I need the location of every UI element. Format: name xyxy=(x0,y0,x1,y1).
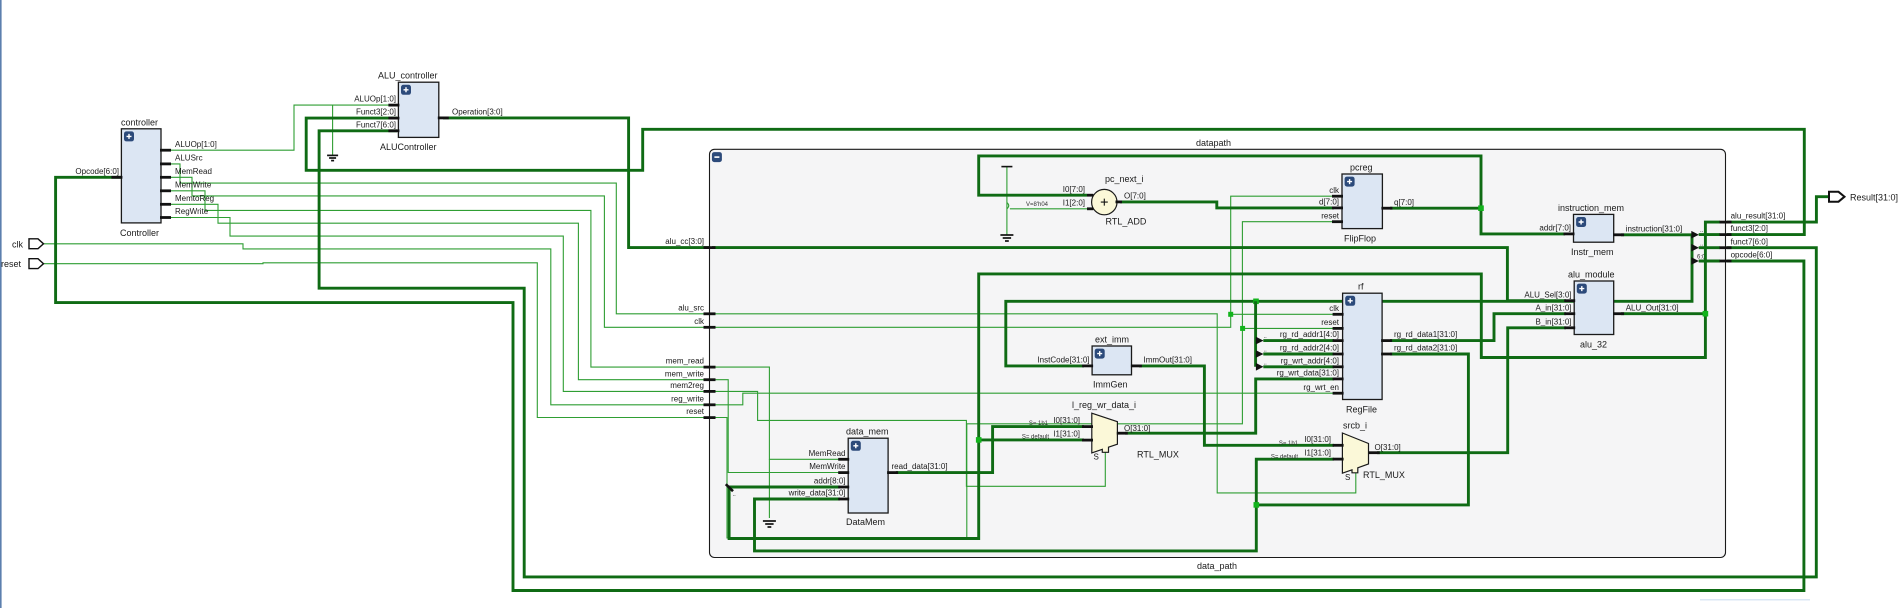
svg-text:pc_next_i: pc_next_i xyxy=(1105,174,1144,184)
bus l_reg mux O to rf rg_wrt_data xyxy=(1125,379,1334,433)
datapath pin reg_write xyxy=(704,403,716,406)
module alu_module (alu_32) xyxy=(1524,269,1678,349)
bus srcb O to alu B_in xyxy=(1377,328,1566,453)
svg-text:Opcode[6:0]: Opcode[6:0] xyxy=(75,167,119,176)
svg-text:Funct7[6:0]: Funct7[6:0] xyxy=(356,120,396,129)
svg-text:rf: rf xyxy=(1358,282,1364,292)
junction alu result to mux xyxy=(976,437,982,443)
pin rg_rd_data1[31:0] xyxy=(1381,339,1392,342)
junction ALU_Out xyxy=(1703,311,1709,317)
svg-text:read_data[31:0]: read_data[31:0] xyxy=(892,462,948,471)
wire MemRead to datapath clk pin row xyxy=(171,177,709,327)
svg-text:Operation[3:0]: Operation[3:0] xyxy=(452,108,503,117)
bus instruction tap vertical xyxy=(1006,235,1692,366)
pin ALUSrc xyxy=(160,162,171,165)
pin instruction[31:0] xyxy=(1613,233,1624,236)
svg-text:I0[31:0]: I0[31:0] xyxy=(1053,416,1080,425)
tap arrow funct7 xyxy=(1691,244,1699,252)
datapath pin opcode[6:0] xyxy=(1720,260,1732,263)
svg-text:S= default: S= default xyxy=(1022,434,1050,440)
wire reset inside to pcreg reset xyxy=(712,222,1334,538)
pin rg_wrt_addr[4:0] xyxy=(1333,365,1344,368)
DataMem expand icon xyxy=(851,441,861,451)
ground below pc constant xyxy=(1000,235,1013,241)
module data_mem (DataMem) xyxy=(788,427,948,527)
pin clk xyxy=(1333,313,1344,316)
pin I1[31:0] xyxy=(1333,458,1344,461)
bus ALU_Out to DataMem addr chain xyxy=(729,274,1705,539)
svg-text:S: S xyxy=(1345,473,1350,482)
svg-text:mem_write: mem_write xyxy=(665,369,705,378)
wire mem_read inside to DataMem MemRead xyxy=(712,367,840,459)
pin MemWrite xyxy=(160,189,171,192)
svg-text:O[31:0]: O[31:0] xyxy=(1124,424,1150,433)
svg-text:I1[31:0]: I1[31:0] xyxy=(1053,430,1080,439)
pin A_in[31:0] xyxy=(1564,312,1575,315)
ground below data_mem xyxy=(763,521,776,527)
tap stub rg_wrt_addr xyxy=(1263,365,1334,368)
svg-text:S= 1b1: S= 1b1 xyxy=(1029,421,1049,427)
ALUController body xyxy=(398,82,438,137)
pin addr[7:0] xyxy=(1564,232,1575,235)
svg-text:reset: reset xyxy=(1321,318,1340,327)
alu_32 body xyxy=(1574,281,1614,335)
bus Operation ALUController to datapath alu_cc xyxy=(443,118,709,248)
junction reset at rf xyxy=(1240,326,1245,331)
svg-text:ALU_Sel[3:0]: ALU_Sel[3:0] xyxy=(1524,290,1571,299)
datapath pin mem2reg xyxy=(704,390,716,393)
svg-text:alu_cc[3:0]: alu_cc[3:0] xyxy=(665,237,704,246)
svg-text:rg_wrt_addr[4:0]: rg_wrt_addr[4:0] xyxy=(1281,356,1339,365)
svg-text:S= 1b1: S= 1b1 xyxy=(1279,441,1299,447)
datapath pin clk xyxy=(704,326,716,329)
svg-text:..: .. xyxy=(1264,360,1268,366)
bus alu_cc inside to alu_32 ALU_Sel xyxy=(712,248,1566,301)
svg-text:instruction_mem: instruction_mem xyxy=(1558,203,1624,213)
wire MemtoReg to datapath mem_write pin row xyxy=(171,204,709,379)
tap stub opcode xyxy=(1699,260,1720,263)
svg-text:ALU_Out[31:0]: ALU_Out[31:0] xyxy=(1626,303,1679,312)
svg-text:rg_wrt_data[31:0]: rg_wrt_data[31:0] xyxy=(1277,369,1339,378)
svg-text:B_in[31:0]: B_in[31:0] xyxy=(1535,317,1571,326)
controller body xyxy=(121,129,161,223)
bus rg_rd_data2 down xyxy=(1256,354,1468,505)
input port clk xyxy=(29,239,44,249)
svg-text:RTL_ADD: RTL_ADD xyxy=(1106,216,1147,226)
bus pcreg q to instr_mem addr xyxy=(979,156,1481,208)
pin write_data[31:0] xyxy=(838,498,849,501)
svg-text:MemRead: MemRead xyxy=(175,167,212,176)
bus ImmOut to srcb I0 xyxy=(1139,366,1334,445)
svg-text:MemWrite: MemWrite xyxy=(175,180,212,189)
pin InstCode[31:0] xyxy=(1082,364,1093,367)
junction rd_data2 xyxy=(1254,502,1260,508)
svg-text:rg_wrt_en: rg_wrt_en xyxy=(1303,383,1339,392)
pin MemRead xyxy=(838,458,849,461)
svg-text:clk: clk xyxy=(694,317,705,326)
pcreg expand icon xyxy=(1345,177,1355,187)
svg-text:instruction[31:0]: instruction[31:0] xyxy=(1626,224,1682,233)
svg-text:clk: clk xyxy=(12,239,23,249)
svg-text:..: .. xyxy=(1700,242,1704,248)
controller expand icon xyxy=(124,131,134,141)
svg-text:ALUOp[1:0]: ALUOp[1:0] xyxy=(354,95,396,104)
svg-text:Controller: Controller xyxy=(120,228,159,238)
svg-text:O[7:0]: O[7:0] xyxy=(1124,192,1146,201)
svg-text:reset: reset xyxy=(686,407,705,416)
wire mem_write inside to DataMem MemWrite xyxy=(712,380,840,473)
input port reset xyxy=(29,259,44,269)
svg-text:RegWrite: RegWrite xyxy=(175,207,209,216)
pin Opcode[6:0] xyxy=(111,176,122,179)
datapath container xyxy=(710,149,1726,557)
tap arrow funct3 xyxy=(1691,231,1699,239)
svg-text:rg_rd_addr1[4:0]: rg_rd_addr1[4:0] xyxy=(1280,330,1339,339)
wire MemWrite to datapath mem_read pin row xyxy=(171,191,709,367)
svg-text:reset: reset xyxy=(1321,211,1340,220)
tap arrow rg_wrt_addr xyxy=(1256,363,1264,371)
mux srcb_i (RTL_MUX) xyxy=(1271,421,1405,483)
wire reset port to datapath xyxy=(44,263,710,418)
svg-text:pcreg: pcreg xyxy=(1350,163,1373,173)
Instr_mem expand icon xyxy=(1576,217,1586,227)
wire clk branch to rf clk xyxy=(1231,313,1334,315)
pin rg_wrt_en xyxy=(1333,392,1344,395)
pin I0[31:0] xyxy=(1082,425,1093,428)
svg-text:InstCode[31:0]: InstCode[31:0] xyxy=(1037,356,1089,365)
datapath pin alu_src xyxy=(704,312,716,315)
bus opcode datapath to controller Opcode xyxy=(56,177,1804,590)
datapath pin funct3[2:0] xyxy=(1720,233,1732,236)
pin I0[31:0] xyxy=(1333,444,1344,447)
datapath pin alu_cc[3:0] xyxy=(704,246,716,249)
pcreg body xyxy=(1342,174,1382,229)
svg-text:ImmOut[31:0]: ImmOut[31:0] xyxy=(1144,356,1192,365)
pin rg_rd_addr2[4:0] xyxy=(1333,353,1344,356)
svg-text:funct7[6:0]: funct7[6:0] xyxy=(1731,237,1768,246)
module ALU_controller (ALUController) xyxy=(354,71,503,153)
svg-text:RTL_MUX: RTL_MUX xyxy=(1363,470,1405,480)
pin I1[31:0] xyxy=(1082,439,1093,442)
wire mem2reg inside to l_reg_wr_data mux S xyxy=(712,391,1105,486)
svg-text:I1[31:0]: I1[31:0] xyxy=(1304,449,1331,458)
junction clk at rf xyxy=(1228,312,1233,317)
svg-text:ALUOp[1:0]: ALUOp[1:0] xyxy=(175,140,217,149)
bus ALU_Out to alu_result pin xyxy=(1621,222,1720,314)
bus rg_rd_data1 to alu A_in xyxy=(1390,314,1566,341)
RegFile body xyxy=(1343,293,1383,399)
pin reset xyxy=(1333,327,1344,330)
pin MemWrite xyxy=(838,471,849,474)
pin addr[8:0] xyxy=(838,486,849,489)
svg-text:ALUSrc: ALUSrc xyxy=(175,154,203,163)
svg-text:V=8'h04: V=8'h04 xyxy=(1026,202,1049,208)
wire ground stem at ALUController xyxy=(332,105,334,155)
pin O[7:0] xyxy=(1116,200,1123,203)
svg-text:rg_rd_data1[31:0]: rg_rd_data1[31:0] xyxy=(1394,330,1457,339)
pin rg_rd_addr1[4:0] xyxy=(1333,339,1344,342)
svg-text:d[7:0]: d[7:0] xyxy=(1319,198,1339,207)
pin Funct3[2:0] xyxy=(388,117,399,120)
svg-text:alu_module: alu_module xyxy=(1568,269,1615,279)
svg-text:FlipFlop: FlipFlop xyxy=(1344,234,1376,244)
wire RegWrite to datapath mem2reg pin row xyxy=(171,218,709,392)
pin rg_rd_data2[31:0] xyxy=(1381,353,1392,356)
svg-text:DataMem: DataMem xyxy=(846,517,885,527)
wire reset branch to rf reset xyxy=(1242,327,1334,329)
alu_32 expand icon xyxy=(1577,284,1587,294)
module instruction_mem (Instr_mem) xyxy=(1539,203,1682,257)
tap arrow opcode xyxy=(1691,257,1699,265)
tap arrow rg_rd_addr1 xyxy=(1256,337,1264,345)
svg-text:clk: clk xyxy=(1329,186,1340,195)
wire mem_read stem to ground xyxy=(768,459,770,518)
svg-text:S: S xyxy=(1094,453,1099,462)
svg-text:alu_result[31:0]: alu_result[31:0] xyxy=(1731,212,1786,221)
svg-text:alu_src: alu_src xyxy=(678,303,704,312)
mux l_reg_wr_data_i (RTL_MUX) xyxy=(1022,400,1179,462)
wire ALUSrc to datapath alu_src xyxy=(171,164,709,314)
bus alu_result to Result port xyxy=(1727,197,1829,222)
net splitter brace at pc constant xyxy=(1007,203,1009,209)
wire reg_write inside to rf rg_wrt_en xyxy=(712,393,1334,405)
svg-text:q[7:0]: q[7:0] xyxy=(1394,198,1414,207)
tap stub rg_rd_addr1 xyxy=(1263,339,1334,342)
pin read_data[31:0] xyxy=(887,471,898,474)
pin MemtoReg xyxy=(160,203,171,206)
pin reset xyxy=(1332,220,1343,223)
pin d[7:0] xyxy=(1332,206,1343,209)
module controller (Controller) xyxy=(75,118,216,239)
svg-text:opcode[6:0]: opcode[6:0] xyxy=(1731,251,1773,260)
svg-text:datapath: datapath xyxy=(1196,138,1231,148)
svg-text:data_mem: data_mem xyxy=(846,427,889,437)
junction instruction xyxy=(1253,299,1259,305)
tap stub funct3 xyxy=(1699,233,1720,236)
pin Funct7[6:0] xyxy=(388,129,399,132)
svg-text:mem2reg: mem2reg xyxy=(670,381,704,390)
RTL_ADD circle xyxy=(1092,189,1117,214)
Instr_mem body xyxy=(1574,214,1614,242)
RTL_MUX trapezoid xyxy=(1092,413,1118,453)
ALUController expand icon xyxy=(401,85,411,95)
svg-text:MemRead: MemRead xyxy=(809,449,846,458)
svg-text:write_data[31:0]: write_data[31:0] xyxy=(788,489,846,498)
datapath pin alu_result[31:0] xyxy=(1720,221,1732,224)
svg-text:srcb_i: srcb_i xyxy=(1343,421,1367,431)
svg-text:S= default: S= default xyxy=(1271,455,1299,461)
svg-text:I0[31:0]: I0[31:0] xyxy=(1304,435,1331,444)
svg-text:ext_imm: ext_imm xyxy=(1095,334,1129,344)
svg-text:mem_read: mem_read xyxy=(666,357,704,366)
wire clk inside to pcreg clk xyxy=(712,196,1334,327)
output port Result[31:0] xyxy=(1829,192,1845,202)
svg-text:..: .. xyxy=(1264,348,1268,354)
bus read_data to l_reg mux I0 xyxy=(896,427,1084,473)
svg-text:alu_32: alu_32 xyxy=(1580,339,1607,349)
pin B_in[31:0] xyxy=(1564,326,1575,329)
svg-text:rg_rd_addr2[4:0]: rg_rd_addr2[4:0] xyxy=(1280,344,1339,353)
module rf (RegFile) xyxy=(1277,282,1457,415)
pin O[31:0] xyxy=(1117,432,1128,435)
ground below ALU_controller xyxy=(327,155,338,160)
svg-text:addr[7:0]: addr[7:0] xyxy=(1539,224,1571,233)
ImmGen expand icon xyxy=(1095,349,1105,359)
wire alu_src inside to srcb mux S xyxy=(712,314,1356,493)
svg-text:addr[8:0]: addr[8:0] xyxy=(814,477,846,486)
datapath pin funct7[6:0] xyxy=(1720,246,1732,249)
bus q branch down to addr xyxy=(1481,208,1565,234)
svg-text:I0[7:0]: I0[7:0] xyxy=(1063,185,1085,194)
svg-text:..: .. xyxy=(733,492,737,498)
op-amp style adder pc_next_i (RTL_ADD) xyxy=(1063,174,1147,226)
svg-text:controller: controller xyxy=(121,118,158,128)
svg-text:O[31:0]: O[31:0] xyxy=(1375,443,1401,452)
bus rd_data2 branch to srcb I1 xyxy=(1256,459,1334,505)
wire ALUOp controller to ALUController xyxy=(171,105,397,150)
svg-text:Funct3[2:0]: Funct3[2:0] xyxy=(356,108,396,117)
svg-text:MemtoReg: MemtoReg xyxy=(175,194,214,203)
svg-text:reset: reset xyxy=(1,259,22,269)
pin I1[2:0] xyxy=(1087,207,1093,210)
tap stub funct7 xyxy=(1699,246,1720,249)
pin O[31:0] xyxy=(1369,451,1380,454)
ImmGen body xyxy=(1092,346,1131,375)
pin ALUOp[1:0] in xyxy=(388,104,399,107)
pin I0[7:0] xyxy=(1087,194,1093,197)
svg-text:data_path: data_path xyxy=(1197,561,1237,571)
svg-text:ImmGen: ImmGen xyxy=(1093,379,1128,389)
svg-text:funct3[2:0]: funct3[2:0] xyxy=(1731,224,1768,233)
constant top bar xyxy=(1001,166,1012,168)
pin rg_wrt_data[31:0] xyxy=(1333,377,1344,380)
pin ImmOut[31:0] xyxy=(1131,364,1142,367)
module ext_imm (ImmGen) xyxy=(1037,334,1192,389)
datapath collapse icon xyxy=(712,152,722,162)
pin ALUOp[1:0] xyxy=(160,149,171,152)
svg-text:..: .. xyxy=(1264,334,1268,340)
svg-text:reg_write: reg_write xyxy=(671,394,704,403)
bus funct7 datapath to ALUController xyxy=(319,131,1816,577)
bus rd_data2 to DataMem write_data xyxy=(755,499,1257,551)
pin q[7:0] xyxy=(1381,207,1392,210)
tap arrow rg_rd_addr2 xyxy=(1256,350,1264,358)
tap stub rg_rd_addr2 xyxy=(1263,353,1334,356)
svg-text:..: .. xyxy=(1700,228,1704,234)
svg-text:Result[31:0]: Result[31:0] xyxy=(1850,192,1898,202)
datapath pin mem_read xyxy=(704,366,716,369)
svg-text:ALUController: ALUController xyxy=(380,142,437,152)
svg-text:A_in[31:0]: A_in[31:0] xyxy=(1535,303,1571,312)
wire constant stem at pc adder xyxy=(1006,167,1008,235)
pin clk xyxy=(1332,195,1343,198)
datapath pin reset xyxy=(704,416,716,419)
pin Operation[3:0] xyxy=(438,117,449,120)
DataMem body xyxy=(848,438,888,513)
bus ALU result branch to l_reg mux I1 xyxy=(979,438,1084,441)
svg-text:l_reg_wr_data_i: l_reg_wr_data_i xyxy=(1072,400,1136,410)
bus instruction branch to rf address taps xyxy=(1254,301,1257,367)
svg-text:Instr_mem: Instr_mem xyxy=(1571,247,1614,257)
pin ALU_Out[31:0] xyxy=(1613,312,1624,315)
srcb RTL_MUX trapezoid xyxy=(1342,433,1368,473)
pin ALU_Sel[3:0] xyxy=(1564,299,1575,302)
svg-text:I1[2:0]: I1[2:0] xyxy=(1063,199,1085,208)
junction q xyxy=(1478,205,1484,211)
bus funct3 datapath to ALUController xyxy=(306,118,1804,235)
RTL_ADD plus xyxy=(1101,199,1108,206)
addr tap tick xyxy=(726,484,733,491)
pin MemRead xyxy=(160,176,171,179)
pin RegWrite xyxy=(160,216,171,219)
bus instruction from Instr_mem xyxy=(1621,233,1692,236)
bus adder O to pcreg d xyxy=(1120,202,1334,208)
wire clk port to datapath xyxy=(44,244,710,405)
datapath pin mem_write xyxy=(704,378,716,381)
svg-text:rg_rd_data2[31:0]: rg_rd_data2[31:0] xyxy=(1394,344,1457,353)
svg-text:MemWrite: MemWrite xyxy=(809,462,846,471)
svg-text:RegFile: RegFile xyxy=(1346,405,1377,415)
RegFile expand icon xyxy=(1345,296,1355,306)
module pcreg (FlipFlop) xyxy=(1319,163,1414,244)
svg-text:ALU_controller: ALU_controller xyxy=(378,71,438,81)
wire constant to adder I1 xyxy=(1010,208,1087,210)
svg-text:clk: clk xyxy=(1329,304,1340,313)
svg-text:RTL_MUX: RTL_MUX xyxy=(1137,450,1179,460)
